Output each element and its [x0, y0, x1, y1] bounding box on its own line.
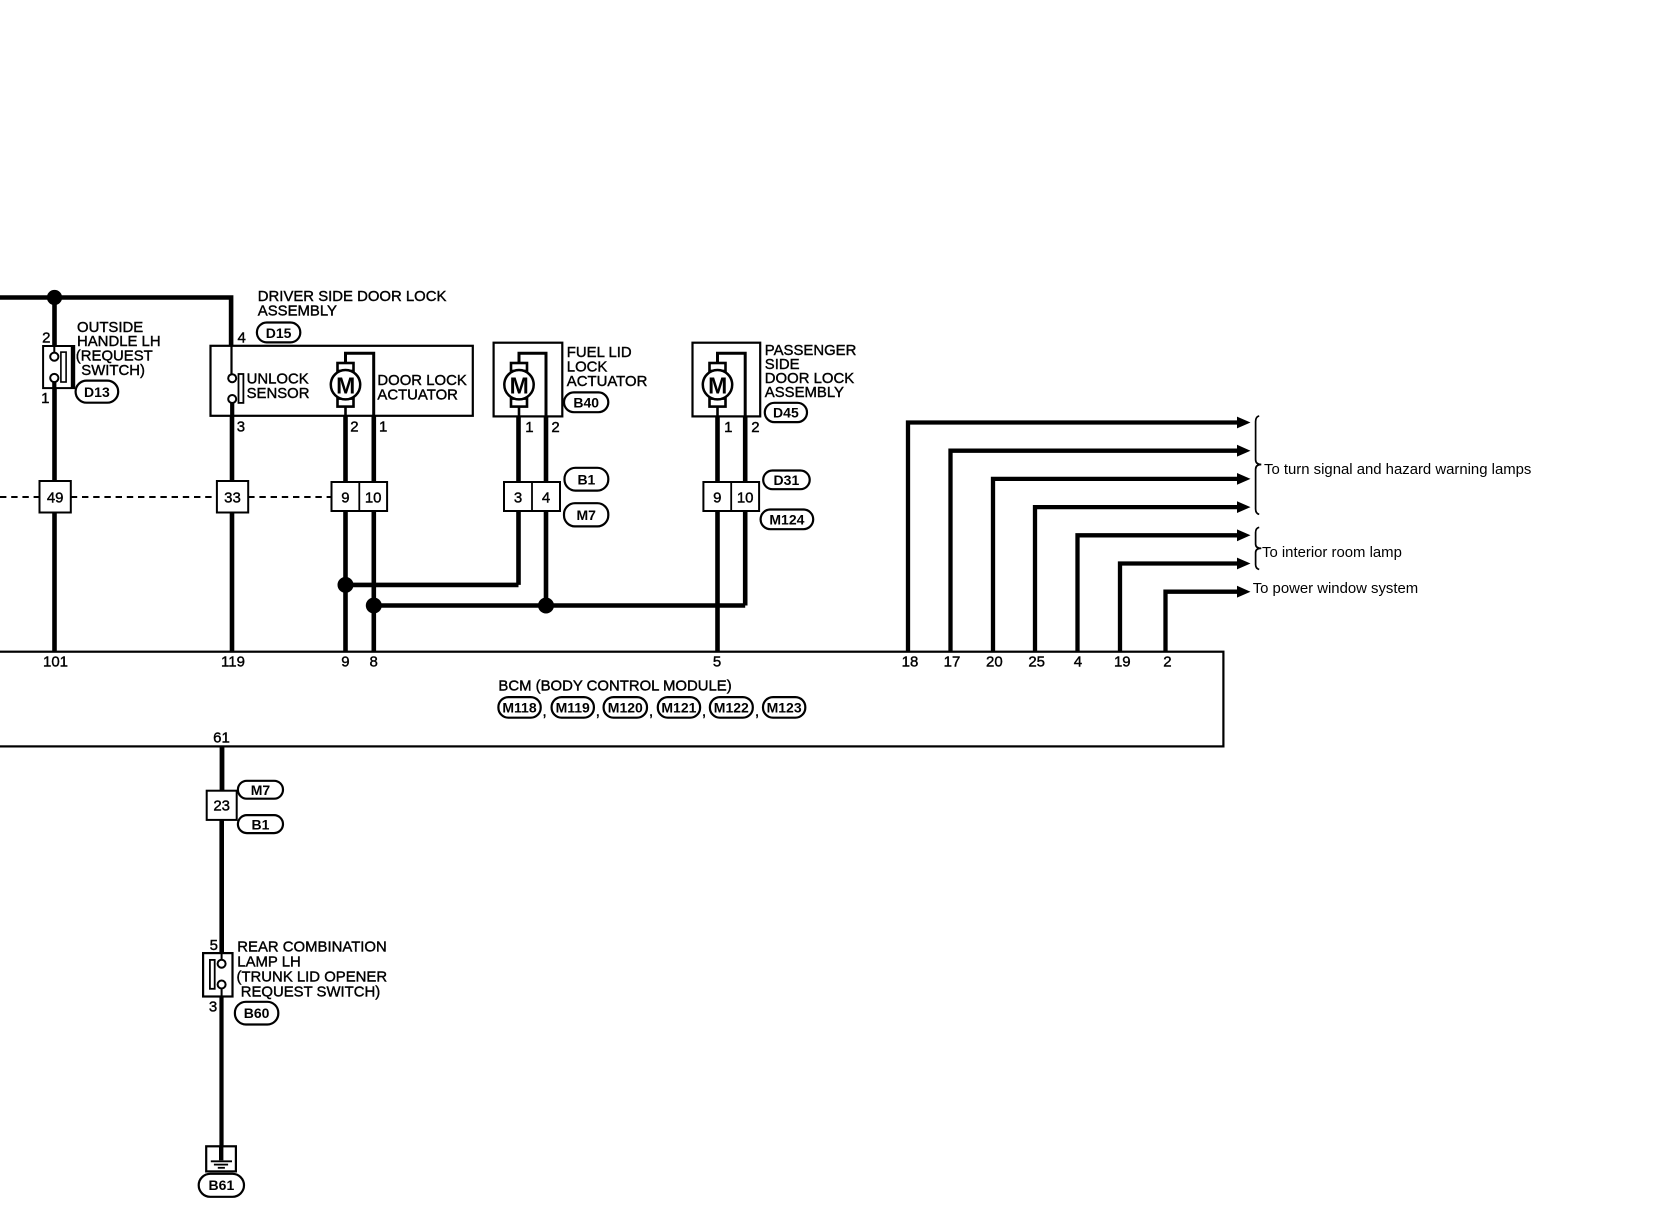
connector label M124 — [761, 510, 814, 530]
connector 9|10 (driver) — [332, 482, 388, 511]
svg-text:2: 2 — [350, 418, 358, 435]
svg-text:4: 4 — [238, 330, 246, 347]
svg-text:33: 33 — [224, 490, 241, 507]
node: junction dot on feed wire — [47, 290, 62, 305]
label: DOOR LOCK ACTUATOR — [377, 373, 466, 403]
svg-text:,: , — [702, 704, 706, 720]
connector label M120 — [604, 697, 647, 718]
wire: BCM pin 20 to arrow 3 — [993, 479, 1238, 652]
brace: turn signal group — [1256, 416, 1262, 514]
connector 3|4 (fuel lid) — [504, 482, 560, 511]
svg-text:5: 5 — [210, 937, 218, 954]
connector label B1 (trunk harness) — [238, 815, 283, 833]
wire: outside handle pin 1 down to connector 49 — [52, 388, 57, 481]
wire: main feed horizontal top-left, turns down to driver assembly pin 4 — [0, 298, 231, 346]
svg-text:D13: D13 — [84, 384, 110, 400]
connector label M123 — [763, 697, 805, 718]
svg-text:8: 8 — [370, 654, 378, 671]
wire: BCM pin 4 to arrow 5 — [1078, 535, 1238, 651]
svg-text:M: M — [336, 373, 355, 399]
svg-text:9: 9 — [713, 490, 721, 507]
svg-text:M120: M120 — [608, 700, 643, 716]
label: FUEL LID LOCK ACTUATOR — [567, 345, 648, 390]
svg-text:2: 2 — [1163, 654, 1171, 671]
svg-text:To power window system: To power window system — [1253, 581, 1419, 597]
svg-text:1: 1 — [724, 419, 732, 436]
wire: BCM pin 17 to arrow 2 — [951, 451, 1238, 652]
svg-text:4: 4 — [542, 490, 550, 507]
wire: connector 23 down to rear combination lamp pin 5 — [219, 820, 224, 953]
wire: BCM pin 19 to arrow 6 — [1120, 564, 1238, 652]
wire: driver pin 2 down to connector 9 — [343, 416, 348, 482]
connector 9|10 (passenger) — [703, 482, 759, 511]
wire: connector 10 down to BCM pin 8 — [371, 511, 376, 652]
connector 49 — [40, 481, 71, 513]
svg-text:5: 5 — [713, 654, 721, 671]
svg-text:BCM (BODY CONTROL MODULE): BCM (BODY CONTROL MODULE) — [498, 679, 731, 695]
wire: passenger pin 2 down to connector 10 — [743, 416, 748, 482]
connector 33 — [217, 481, 248, 513]
connector label B61 — [199, 1174, 244, 1197]
svg-text:REQUEST SWITCH): REQUEST SWITCH) — [241, 985, 381, 1001]
svg-text:119: 119 — [221, 654, 245, 671]
svg-text:10: 10 — [737, 490, 754, 507]
svg-text:D15: D15 — [266, 325, 292, 341]
svg-text:M122: M122 — [714, 700, 749, 716]
motor M3: passenger door lock actuator — [703, 353, 745, 416]
switch SW1: outside handle LH request switch box — [43, 346, 74, 388]
svg-text:2: 2 — [42, 329, 50, 346]
node: junction of pin-8 wire and passenger branch — [366, 598, 382, 614]
wire: unlock sensor pin 3 down to connector 33 — [230, 416, 235, 481]
connector label D31 — [763, 471, 810, 490]
wire: connector 9 down to BCM pin 9 — [343, 511, 348, 652]
svg-text:,: , — [596, 704, 600, 720]
svg-text:M: M — [510, 373, 529, 399]
svg-text:3: 3 — [514, 490, 522, 507]
connector label M118 — [498, 697, 540, 718]
motor M1: door lock actuator — [331, 353, 374, 416]
arrowhead 2 — [1237, 445, 1251, 457]
svg-text:17: 17 — [944, 654, 961, 671]
svg-text:61: 61 — [213, 730, 230, 747]
wire: BCM pin 61 down to connector 23 — [220, 746, 225, 790]
arrowhead 7 — [1237, 586, 1251, 598]
svg-text:3: 3 — [209, 998, 217, 1015]
component box: BCM (body control module) — [0, 652, 1223, 747]
connector label M119 — [552, 697, 594, 718]
connector 23 — [207, 791, 237, 820]
arrowhead 1 — [1237, 417, 1251, 429]
svg-text:18: 18 — [902, 654, 919, 671]
wire: connector 49 down to BCM pin 101 — [52, 513, 57, 652]
node: junction of fuel-lid pin 2 on passenger branch — [538, 598, 554, 614]
label: DRIVER SIDE DOOR LOCK ASSEMBLY — [258, 289, 447, 319]
svg-text:4: 4 — [1074, 654, 1082, 671]
wire: dashed harness line — [0, 496, 332, 498]
svg-text:3: 3 — [237, 418, 245, 435]
svg-text:M: M — [708, 373, 727, 399]
svg-text:(TRUNK LID OPENER: (TRUNK LID OPENER — [237, 970, 388, 986]
svg-text:M7: M7 — [251, 782, 271, 798]
wire: BCM pin 2 to arrow 7 — [1166, 592, 1238, 652]
svg-text:20: 20 — [986, 654, 1003, 671]
svg-text:19: 19 — [1114, 654, 1131, 671]
svg-text:25: 25 — [1028, 654, 1045, 671]
svg-text:ASSEMBLY: ASSEMBLY — [258, 303, 337, 319]
wire: branch from junction to fuel lid pin 1 — [346, 511, 519, 585]
svg-text:REAR COMBINATION: REAR COMBINATION — [237, 940, 386, 956]
arrowhead 3 — [1237, 473, 1251, 485]
wire: passenger pin 1 connector down to BCM pin 5 — [715, 511, 720, 652]
connector label B60 — [235, 1002, 278, 1025]
wire: fuel lid pin 1 down to connector 3 — [516, 416, 521, 482]
svg-text:ASSEMBLY: ASSEMBLY — [765, 385, 844, 401]
connector label M7 (trunk harness) — [238, 781, 283, 799]
label: UNLOCK SENSOR — [247, 371, 310, 401]
component box: passenger side door lock assembly — [693, 343, 761, 417]
svg-text:SENSOR: SENSOR — [247, 386, 310, 402]
svg-text:,: , — [649, 704, 653, 720]
svg-text:1: 1 — [525, 419, 533, 436]
svg-text:,: , — [543, 704, 547, 720]
svg-text:9: 9 — [341, 490, 349, 507]
svg-text:LAMP LH: LAMP LH — [237, 955, 300, 971]
svg-text:ACTUATOR: ACTUATOR — [377, 388, 458, 404]
connector label B40 — [564, 392, 608, 412]
switch: unlock sensor — [228, 346, 243, 416]
svg-text:2: 2 — [751, 419, 759, 436]
connector label B1 — [565, 468, 609, 491]
ground G1 — [206, 1146, 236, 1171]
svg-text:M7: M7 — [576, 507, 596, 523]
connector label M7 — [564, 503, 608, 526]
component box: fuel lid lock actuator — [494, 343, 563, 417]
svg-text:M121: M121 — [661, 700, 696, 716]
svg-text:M123: M123 — [767, 700, 802, 716]
svg-text:2: 2 — [551, 419, 559, 436]
wire: passenger pin 1 down to connector 9 — [715, 416, 720, 482]
brace: interior room lamp group — [1256, 527, 1262, 569]
svg-text:9: 9 — [341, 654, 349, 671]
wire: fuel lid pin 2 down to connector 4 — [544, 416, 549, 482]
node: junction of pin-9 wire and fuel-lid branch — [338, 577, 354, 593]
wire: BCM pin 18 up and right to turn signal arrow 1 — [908, 423, 1238, 652]
svg-text:B40: B40 — [573, 394, 599, 410]
label: REAR COMBINATION LAMP LH (TRUNK LID OPENER REQUEST SWITCH) — [237, 940, 388, 1001]
arrowhead 6 — [1237, 558, 1251, 570]
connector label M122 — [710, 697, 753, 718]
svg-text:SWITCH): SWITCH) — [81, 363, 145, 379]
wire: rear lamp pin 3 down to ground — [219, 997, 223, 1147]
svg-text:D31: D31 — [774, 472, 800, 488]
wire: branch from BCM pin 8 to passenger pin 2 and fuel lid pin 2 — [374, 511, 745, 606]
wire: BCM pin 25 to arrow 4 — [1035, 507, 1238, 652]
wire: from junction down to outside handle pin 2 — [52, 298, 57, 347]
svg-text:B61: B61 — [209, 1177, 235, 1193]
svg-text:ACTUATOR: ACTUATOR — [567, 374, 648, 390]
svg-text:10: 10 — [365, 490, 382, 507]
wire: connector 33 down to BCM pin 119 — [230, 513, 235, 652]
svg-text:M119: M119 — [556, 700, 590, 716]
svg-text:M118: M118 — [502, 700, 536, 716]
svg-text:1: 1 — [41, 390, 49, 407]
svg-text:To interior room lamp: To interior room lamp — [1262, 545, 1402, 561]
connector label M121 — [658, 697, 700, 718]
arrowhead 4 — [1237, 501, 1251, 513]
svg-text:1: 1 — [379, 418, 387, 435]
label: PASSENGER SIDE DOOR LOCK ASSEMBLY — [765, 343, 857, 401]
arrowhead 5 — [1237, 529, 1251, 541]
wire: driver pin 1 down to connector 10 — [371, 416, 376, 482]
connector label D15 — [257, 323, 300, 343]
svg-text:49: 49 — [47, 490, 64, 507]
svg-text:M124: M124 — [769, 511, 804, 527]
svg-text:B1: B1 — [252, 816, 270, 832]
svg-text:D45: D45 — [773, 405, 799, 421]
svg-text:B60: B60 — [244, 1005, 270, 1021]
component box: driver side door lock assembly — [211, 346, 473, 416]
svg-text:101: 101 — [43, 654, 68, 671]
svg-text:To turn signal and hazard warn: To turn signal and hazard warning lamps — [1264, 462, 1531, 478]
motor M2: fuel lid lock actuator — [504, 353, 546, 416]
connector label D13 — [76, 381, 119, 403]
svg-text:,: , — [755, 704, 759, 720]
svg-text:23: 23 — [213, 798, 230, 815]
connector label D45 — [765, 403, 807, 422]
svg-text:B1: B1 — [577, 471, 595, 487]
switch SW2: trunk lid opener request switch box — [203, 953, 232, 996]
label: OUTSIDE HANDLE LH (REQUEST SWITCH) — [76, 320, 161, 379]
